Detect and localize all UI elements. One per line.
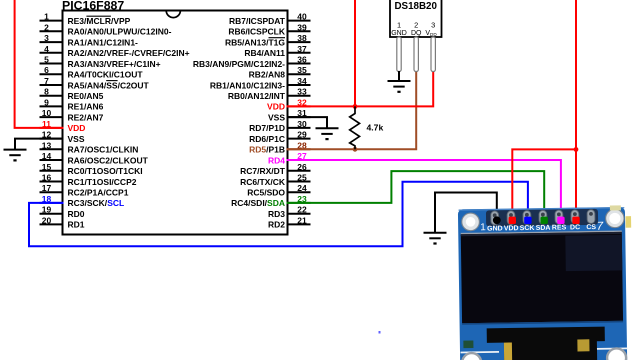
pin 31 VSS [268,108,311,122]
svg-text:RC0/T1OSO/T1CKI: RC0/T1OSO/T1CKI [68,166,143,176]
svg-text:DQ: DQ [411,30,422,37]
OLED pad 6 [571,210,579,224]
OLED mounting hole bottom-right [607,348,626,360]
svg-text:SDA: SDA [536,225,551,232]
node VDD junction at resistor top [353,104,358,109]
ground (right of chip, pin 31) [316,128,339,139]
svg-text:14: 14 [42,151,52,161]
svg-text:GND: GND [391,30,407,37]
OLED wire cap RES [557,217,564,224]
svg-text:RD7/P1D: RD7/P1D [249,123,285,133]
svg-text:36: 36 [297,55,307,65]
OLED pad 2 [507,211,515,225]
wire DS18B20 GND to ground [398,71,400,81]
svg-text:1: 1 [397,20,401,29]
svg-text:2: 2 [44,22,49,32]
pin leg VDD DS18B20 [431,37,435,72]
pin 24 RC5/SDO [247,183,310,197]
OLED pad 3 [523,211,531,225]
OLED pad 1 [491,211,499,225]
svg-text:7: 7 [597,221,604,233]
svg-text:19: 19 [42,205,52,215]
svg-text:7: 7 [44,76,49,86]
pin 35 RB2/AN8 [249,65,311,79]
pin 25 RC6/TX/CK [240,173,310,187]
svg-text:4.7k: 4.7k [367,122,384,132]
svg-text:RA4/T0CKI/C1OUT: RA4/T0CKI/C1OUT [68,70,144,80]
pin 5 RA3/AN3/VREF+/C1IN+ [40,55,161,69]
pin 1 RE3/MCLR/VPP [40,12,131,26]
svg-text:37: 37 [297,44,307,54]
pin 37 RB4/AN11 [244,44,310,58]
svg-text:RC7/RX/DT: RC7/RX/DT [240,166,286,176]
svg-text:39: 39 [297,22,307,32]
svg-text:RB5/AN13/T1G: RB5/AN13/T1G [225,37,285,47]
OLED flex connector [487,327,606,360]
svg-text:RC3/SCK/SCL: RC3/SCK/SCL [68,198,125,208]
node VDD junction right rail [574,147,579,152]
wire VDD branch to OLED VDD [512,149,576,219]
svg-text:RB3/AN9/PGM/C12IN2-: RB3/AN9/PGM/C12IN2- [193,59,285,69]
pin 4 RA2/AN2/VREF-/CVREF/C2IN+ [40,44,190,58]
pin 14 RA6/OSC2/CLKOUT [40,151,149,165]
artifact blue speck [379,331,381,334]
pin 11 VDD [40,119,86,133]
svg-text:34: 34 [297,76,307,86]
pin 3 RA1/AN1/C12IN1- [40,33,139,47]
svg-text:RD6/P1C: RD6/P1C [249,134,285,144]
svg-text:RC1/T1OSI/CCP2: RC1/T1OSI/CCP2 [68,177,137,187]
svg-text:VSS: VSS [268,112,285,122]
svg-text:RB6/ICSPCLK: RB6/ICSPCLK [228,27,286,37]
svg-text:13: 13 [42,140,52,150]
svg-text:RA6/OSC2/CLKOUT: RA6/OSC2/CLKOUT [68,155,149,165]
svg-text:RB1/AN10/C12IN3-: RB1/AN10/C12IN3- [210,80,285,90]
svg-text:22: 22 [297,205,307,215]
svg-text:RD5/P1B: RD5/P1B [249,145,285,155]
svg-text:RB7/ICSPDAT: RB7/ICSPDAT [229,16,286,26]
svg-text:20: 20 [42,215,52,225]
pin 6 RA4/T0CKI/C1OUT [40,65,144,79]
pin 29 RD6/P1C [249,130,310,144]
svg-text:17: 17 [42,183,52,193]
pin 26 RC7/RX/DT [240,162,310,176]
svg-text:40: 40 [297,12,307,22]
pin 21 RD2 [268,215,311,229]
svg-text:24: 24 [297,183,307,193]
svg-text:4: 4 [44,44,49,54]
svg-text:33: 33 [297,87,307,97]
svg-text:RE1/AN6: RE1/AN6 [68,102,104,112]
pin 17 RC2/P1A/CCP1 [40,183,129,197]
svg-text:RC6/TX/CK: RC6/TX/CK [240,177,286,187]
svg-text:RE3/MCLR/VPP: RE3/MCLR/VPP [68,16,131,26]
svg-text:RA5/AN4/SS/C2OUT: RA5/AN4/SS/C2OUT [68,80,150,90]
svg-text:DS18B20: DS18B20 [394,1,437,12]
wire VDD pin 32 to DS18B20 VDD [287,71,433,107]
svg-text:26: 26 [297,162,307,172]
pin 15 RC0/T1OSO/T1CKI [40,162,143,176]
OLED wire cap GND [493,216,501,224]
svg-text:RA2/AN2/VREF-/CVREF/C2IN+: RA2/AN2/VREF-/CVREF/C2IN+ [68,48,190,58]
OLED pad 7 [587,210,595,224]
svg-text:VDD: VDD [267,102,285,112]
wire VSS pin 12 to ground [15,139,63,150]
svg-text:1: 1 [44,12,49,22]
svg-text:RC2/P1A/CCP1: RC2/P1A/CCP1 [68,188,129,198]
pin 19 RD0 [40,205,85,219]
wire SDA green: pin 23 to OLED SDA [287,171,544,220]
wire VDD red right rail to OLED DC [575,0,577,219]
svg-text:RD0: RD0 [68,209,85,219]
wire DQ brown: pin 28 to DS18B20 DQ [287,71,416,150]
svg-text:RA7/OSC1/CLKIN: RA7/OSC1/CLKIN [68,145,139,155]
svg-text:21: 21 [297,215,307,225]
OLED screen glass [461,231,622,235]
svg-text:RD4: RD4 [268,155,285,165]
pin 20 RD1 [40,215,85,229]
pin 10 RE2/AN7 [40,108,104,122]
svg-text:8: 8 [44,87,49,97]
pin 33 RB0/AN12/INT [228,87,311,101]
OLED wire cap DC [572,217,579,224]
OLED mounting hole top-left [462,213,480,231]
svg-text:1: 1 [480,222,486,233]
svg-text:VDD: VDD [425,30,437,37]
pin 12 VSS [40,130,85,144]
pin 2 RA0/AN0/ULPWU/C12IN0- [40,22,172,36]
OLED mounting hole top-right [606,209,625,228]
pin 23 RC4/SDI/SDA [231,194,310,208]
svg-text:RB4/AN11: RB4/AN11 [244,48,285,58]
OLED pad 4 [539,210,547,224]
wire VDD rail top center [354,0,356,106]
sensor U2 DS18B20 [390,0,442,37]
svg-text:30: 30 [297,119,307,129]
svg-text:35: 35 [297,65,307,75]
pin 22 RD3 [268,205,311,219]
wire RD4 magenta: pin 27 to OLED RES [287,160,561,220]
wire black: OLED GND to ground [435,193,497,233]
svg-text:29: 29 [297,130,307,140]
pin 40 RB7/ICSPDAT [229,12,311,26]
wire VSS pin 31 to ground [287,117,327,128]
pin 13 RA7/OSC1/CLKIN [40,140,139,154]
IC U1 PIC16F887 body [62,0,288,235]
svg-text:RA0/AN0/ULPWU/C12IN0-: RA0/AN0/ULPWU/C12IN0- [68,27,172,37]
svg-text:3: 3 [431,20,435,29]
OLED wire cap SCK [524,217,531,224]
svg-text:RD3: RD3 [268,209,285,219]
svg-text:VDD: VDD [504,225,519,232]
wire VDD left rail to pin 11 [15,0,63,128]
pin 8 RE0/AN5 [40,87,104,101]
svg-text:RA1/AN1/C12IN1-: RA1/AN1/C12IN1- [68,37,139,47]
ground (below, OLED GND) [424,233,447,244]
OLED mounting hole bottom-left [462,353,481,360]
ground (left, pin 12) [4,150,27,161]
svg-text:5: 5 [44,55,49,65]
pin 36 RB3/AN9/PGM/C12IN2- [193,55,311,69]
pin leg GND DS18B20 [397,37,401,72]
svg-text:VDD: VDD [68,123,86,133]
svg-text:15: 15 [42,162,52,172]
OLED display module [458,205,634,360]
OLED pad 5 [555,210,563,224]
pin 16 RC1/T1OSI/CCP2 [40,173,137,187]
svg-text:RC4/SDI/SDA: RC4/SDI/SDA [231,198,285,208]
wire SCL blue: pin 18 to OLED SCK [29,182,528,247]
svg-text:38: 38 [297,33,307,43]
pin 34 RB1/AN10/C12IN3- [210,76,311,90]
resistor R1 4.7k [350,106,384,149]
svg-text:RE2/AN7: RE2/AN7 [68,112,104,122]
pin leg DQ DS18B20 [414,37,418,72]
svg-text:2: 2 [414,20,418,29]
svg-text:GND: GND [487,225,503,232]
pin 39 RB6/ICSPCLK [228,22,310,36]
ground (DS18B20 GND) [388,81,411,92]
pin 38 RB5/AN13/T1G [225,33,311,47]
OLED bottom edge highlight [461,351,500,353]
OLED pad band [486,209,598,227]
svg-text:RD2: RD2 [268,220,285,230]
pin 18 RC3/SCK/SCL [40,194,125,208]
svg-text:RD1: RD1 [68,220,85,230]
svg-text:10: 10 [42,108,52,118]
svg-text:16: 16 [42,173,52,183]
OLED pin labels [480,220,604,234]
OLED small component green [463,341,473,349]
svg-text:RES: RES [552,224,567,231]
OLED wire cap VDD [509,217,516,224]
node DQ/resistor junction [353,147,358,152]
pin 30 RD7/P1D [249,119,310,133]
pin 28 RD5/P1B [249,140,310,154]
svg-text:RC5/SDO: RC5/SDO [247,188,285,198]
svg-text:6: 6 [44,65,49,75]
svg-text:RB0/AN12/INT: RB0/AN12/INT [228,91,286,101]
svg-text:3: 3 [44,33,49,43]
svg-text:RA3/AN3/VREF+/C1IN+: RA3/AN3/VREF+/C1IN+ [68,59,161,69]
svg-text:25: 25 [297,173,307,183]
svg-text:DC: DC [570,224,580,231]
svg-text:VSS: VSS [68,134,85,144]
pin 32 VDD [267,97,310,111]
pin 9 RE1/AN6 [40,97,104,111]
svg-text:RE0/AN5: RE0/AN5 [68,91,104,101]
OLED wire cap SDA [541,217,548,224]
svg-text:SCK: SCK [520,225,535,232]
pin 27 RD4 [268,151,311,165]
pin 7 RA5/AN4/SS/C2OUT [40,76,150,90]
OLED yellow SMD [610,205,621,210]
svg-text:RB2/AN8: RB2/AN8 [249,70,286,80]
svg-text:PIC16F887: PIC16F887 [62,0,124,12]
svg-text:9: 9 [44,97,49,107]
svg-text:CS: CS [586,224,596,231]
